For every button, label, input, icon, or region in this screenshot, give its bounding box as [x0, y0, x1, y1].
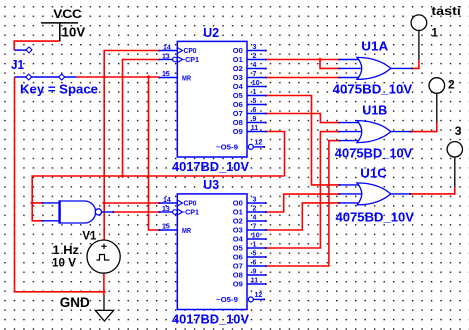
svg-text:O4: O4 — [233, 82, 244, 91]
svg-text:14: 14 — [163, 197, 171, 204]
terminal 1 — [411, 15, 427, 60]
svg-text:J1: J1 — [11, 58, 24, 72]
svg-text:O7: O7 — [233, 109, 243, 118]
terminal 2 — [429, 78, 445, 123]
switch J1 — [14, 47, 76, 80]
junction rail to U2 ~CP1 — [120, 174, 124, 178]
wire U2 O3 to U1A input 3 — [266, 77, 339, 79]
svg-text:2: 2 — [253, 206, 257, 213]
wire U1B output to terminal 2 — [411, 123, 437, 132]
wire V1 plus to U2 CP0 pin 14 and U3 CP0 pin 14 — [104, 51, 159, 241]
svg-text:4075BD_10V: 4075BD_10V — [335, 147, 413, 161]
wire U2 O7 to U1B input 1 — [266, 114, 339, 123]
svg-text:O9: O9 — [233, 280, 243, 289]
svg-text:3: 3 — [253, 197, 257, 204]
U2 pin numbers left — [162, 45, 171, 79]
svg-text:O1: O1 — [233, 208, 243, 217]
svg-text:O6: O6 — [233, 253, 243, 262]
wire U2 O1 to U1A input 1 — [266, 59, 339, 61]
svg-text:O5: O5 — [233, 244, 243, 253]
svg-text:13: 13 — [162, 54, 170, 61]
junction J1 to MR pins — [146, 75, 150, 79]
svg-text:10: 10 — [252, 233, 260, 240]
wire U3 O3 to U1C input 3 — [266, 203, 339, 230]
U3 pin names O0-O9 — [233, 199, 244, 289]
svg-text:O8: O8 — [233, 271, 243, 280]
svg-text:CP0: CP0 — [184, 199, 197, 208]
svg-text:~CP1: ~CP1 — [181, 208, 199, 217]
terminal 3 — [447, 142, 462, 187]
svg-text:4017BD_10V: 4017BD_10V — [172, 160, 250, 174]
svg-text:U2: U2 — [203, 26, 219, 40]
svg-text:4017BD_10V: 4017BD_10V — [172, 313, 250, 327]
or-gate U1B — [339, 121, 411, 143]
svg-text:O8: O8 — [233, 118, 243, 127]
svg-text:9: 9 — [253, 116, 257, 123]
svg-text:1: 1 — [432, 27, 439, 39]
wire U1C output to terminal 3 — [410, 187, 455, 194]
op-amp U3 4017 counter — [159, 194, 266, 310]
wire V1 minus to GND node — [103, 273, 105, 295]
svg-text:15: 15 — [162, 224, 170, 231]
svg-text:O9: O9 — [233, 127, 243, 136]
U2 pin numbers right — [251, 44, 263, 147]
pin end dots — [42, 50, 413, 301]
svg-text:CP0: CP0 — [184, 46, 197, 55]
ground — [95, 296, 113, 322]
nand-gate inverter — [42, 200, 113, 223]
svg-text:15: 15 — [162, 71, 170, 78]
wire J1 node down to U3 MR pin 15 — [149, 77, 159, 230]
svg-text:1 Hz: 1 Hz — [53, 245, 80, 257]
svg-text:6: 6 — [253, 107, 257, 114]
svg-text:Key = Space: Key = Space — [20, 82, 98, 97]
svg-text:4: 4 — [253, 215, 257, 222]
svg-text:3: 3 — [253, 44, 257, 51]
svg-text:10 V: 10 V — [52, 257, 76, 269]
svg-text:10: 10 — [252, 80, 260, 87]
svg-text:O3: O3 — [233, 226, 243, 235]
wire feedback rail to NAND inputs — [32, 176, 284, 221]
wire U2 O5 to U1C input 1 — [266, 96, 339, 185]
svg-text:~O5-9: ~O5-9 — [216, 295, 238, 304]
svg-text:O2: O2 — [233, 217, 243, 226]
junction V1 clock to U3 CP0 — [102, 201, 106, 205]
wire rail branch to U2 ~CP1 pin 13 — [123, 60, 159, 177]
svg-text:4: 4 — [253, 62, 257, 69]
svg-text:7: 7 — [253, 224, 257, 231]
junction GND rail at V1 minus — [102, 290, 106, 294]
svg-text:12: 12 — [255, 140, 263, 147]
svg-text:O7: O7 — [233, 262, 243, 271]
svg-text:13: 13 — [162, 206, 170, 213]
or-gate U1C — [339, 183, 410, 205]
wire U3 O7 to U1B input 3 — [266, 141, 339, 266]
svg-text:12: 12 — [255, 292, 263, 299]
wire U2 O9 to feedback rail — [266, 132, 284, 177]
svg-text:U1A: U1A — [361, 39, 389, 54]
svg-text:O3: O3 — [233, 73, 243, 82]
svg-text:7: 7 — [253, 71, 257, 78]
junction U2 O1 to U1A inputs — [318, 57, 322, 61]
svg-text:3: 3 — [455, 124, 462, 138]
svg-text:O2: O2 — [233, 64, 243, 73]
svg-text:tasti: tasti — [431, 6, 461, 18]
svg-text:U3: U3 — [203, 178, 219, 192]
svg-text:MR: MR — [182, 74, 191, 83]
wire U3 O1 to U1C input 2 — [266, 194, 339, 212]
svg-text:6: 6 — [253, 260, 257, 267]
wire J1 lower throw to GND rail — [15, 77, 104, 292]
junction rail at NAND input 1 — [30, 201, 34, 205]
svg-text:O0: O0 — [233, 46, 243, 55]
U3 pin numbers left — [162, 197, 171, 231]
svg-text:1: 1 — [253, 89, 257, 96]
svg-text:14: 14 — [163, 45, 171, 52]
U2 pin names O0-O9 — [233, 46, 244, 136]
svg-text:5: 5 — [253, 251, 257, 258]
svg-text:~O5-9: ~O5-9 — [216, 143, 238, 152]
svg-text:9: 9 — [253, 269, 257, 276]
or-gate U1A — [339, 57, 412, 79]
svg-text:1: 1 — [253, 242, 257, 249]
svg-text:O4: O4 — [233, 235, 244, 244]
wire branch to U1A input 2 — [320, 60, 339, 69]
U3 pin numbers right — [251, 197, 263, 300]
wire U1A output to terminal 1 — [412, 60, 419, 68]
svg-text:~CP1: ~CP1 — [181, 55, 199, 64]
svg-text:2: 2 — [448, 78, 455, 92]
svg-text:MR: MR — [182, 226, 191, 235]
wire U3 O5 to U1B input 2 — [266, 132, 339, 248]
svg-text:4075BD_10V: 4075BD_10V — [333, 82, 413, 96]
svg-text:5: 5 — [253, 98, 257, 105]
svg-text:10V: 10V — [62, 24, 86, 39]
VCC power symbol — [41, 23, 78, 41]
op-amp U2 4017 counter — [159, 41, 266, 157]
svg-text:O6: O6 — [233, 100, 243, 109]
svg-text:11: 11 — [251, 278, 259, 285]
wire VCC to J1 upper throw — [14, 41, 60, 50]
clock source V1 — [87, 240, 120, 273]
svg-text:VCC: VCC — [53, 7, 82, 21]
svg-text:U1C: U1C — [360, 166, 387, 181]
wire branch to U3 CP0 — [104, 202, 159, 204]
wire NAND output to U3 ~CP1 pin 13 — [113, 211, 159, 213]
svg-text:O1: O1 — [233, 55, 243, 64]
svg-text:O5: O5 — [233, 91, 243, 100]
svg-text:11: 11 — [251, 125, 259, 132]
svg-text:2: 2 — [253, 53, 257, 60]
svg-text:GND: GND — [60, 295, 90, 310]
wire J1 common to U2 MR pin 15 — [76, 76, 158, 78]
svg-text:V1: V1 — [82, 230, 97, 242]
svg-text:U1B: U1B — [362, 102, 387, 117]
svg-text:O0: O0 — [233, 199, 243, 208]
wire NAND input 1 stub — [32, 202, 42, 204]
svg-text:4075BD_10V: 4075BD_10V — [336, 211, 415, 225]
